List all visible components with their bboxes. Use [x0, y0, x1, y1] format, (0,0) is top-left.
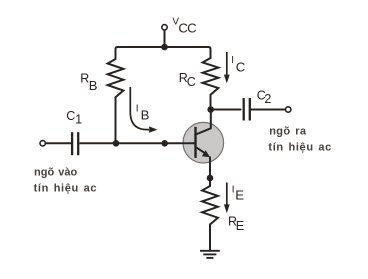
resistor RC [203, 58, 219, 95]
wire C2 to output terminal [251, 109, 286, 111]
wire RE to ground [209, 225, 211, 251]
svg-text:I: I [136, 104, 139, 115]
node base-RB junction [113, 140, 120, 147]
resistor RB [108, 59, 124, 97]
current arrow IC [224, 52, 230, 83]
svg-text:E: E [236, 219, 244, 233]
svg-text:B: B [141, 108, 150, 123]
svg-text:C: C [236, 59, 246, 74]
ground [200, 251, 220, 258]
svg-text:I: I [231, 55, 234, 66]
current arrow IE [224, 183, 230, 214]
capacitor C1 [72, 132, 78, 155]
terminal input [40, 141, 45, 146]
wire RB bottom lead [115, 97, 117, 143]
current arrow IB [130, 87, 157, 133]
svg-text:tín hiệu ac: tín hiệu ac [34, 182, 98, 194]
node base junction [161, 140, 168, 147]
wire input terminal to C1 [45, 142, 71, 144]
svg-text:I: I [232, 185, 235, 196]
terminal output [286, 107, 291, 112]
svg-text:tín hiệu ac: tín hiệu ac [268, 141, 332, 153]
terminal VCC [162, 25, 167, 30]
wire collector node to C2 [211, 109, 241, 111]
node collector junction [207, 106, 214, 113]
wire emitter node to RE [209, 178, 211, 186]
node VCC junction [161, 44, 168, 51]
wire base (C1 to transistor base bar) [79, 142, 194, 144]
wire top rail [116, 47, 211, 59]
svg-text:2: 2 [264, 92, 271, 106]
svg-text:ngõ vào: ngõ vào [34, 166, 77, 178]
svg-text:ngõ ra: ngõ ra [269, 125, 307, 137]
svg-text:CC: CC [178, 21, 197, 36]
resistor RE [202, 186, 218, 225]
svg-text:C: C [66, 109, 75, 123]
svg-text:1: 1 [75, 113, 82, 127]
svg-text:E: E [235, 187, 244, 202]
svg-text:B: B [89, 78, 98, 93]
svg-text:C: C [187, 75, 196, 89]
wire RC bottom lead [210, 95, 212, 110]
wire VCC lead [164, 30, 166, 47]
node emitter junction [207, 175, 214, 182]
transistor Q1 [183, 110, 224, 179]
capacitor C2 [244, 98, 250, 121]
